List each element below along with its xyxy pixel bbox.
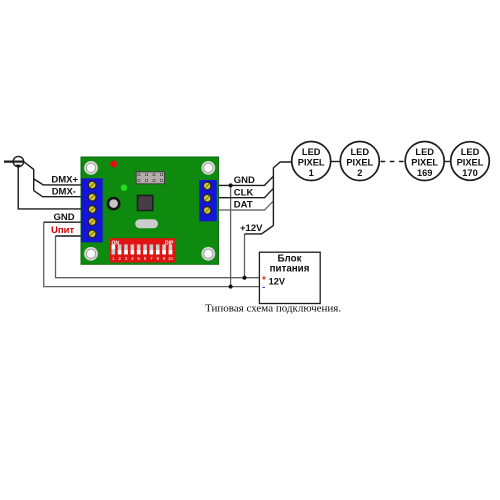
svg-text:DMX+: DMX+ [51,175,78,186]
svg-text:DMX-: DMX- [52,186,76,197]
svg-text:PIXEL: PIXEL [298,158,325,168]
svg-text:PIXEL: PIXEL [457,158,484,168]
svg-text:12V: 12V [269,277,286,287]
svg-text:10: 10 [168,256,174,261]
svg-text:Uпит: Uпит [51,225,74,236]
svg-text:169: 169 [417,168,433,178]
svg-text:5: 5 [137,256,140,261]
svg-text:CLK: CLK [234,187,254,198]
svg-text:1: 1 [112,256,115,261]
svg-text:1: 1 [309,168,314,178]
svg-text:LED: LED [350,147,369,157]
svg-text:GND: GND [54,212,75,223]
svg-text:4: 4 [131,256,134,261]
svg-text:2: 2 [118,256,121,261]
svg-text:6: 6 [144,256,147,261]
svg-text:питания: питания [270,264,310,275]
svg-text:+12V: +12V [240,223,263,234]
svg-text:-: - [262,282,265,292]
svg-text:LED: LED [302,147,321,157]
svg-text:LED: LED [461,147,480,157]
svg-text:8: 8 [156,256,159,261]
svg-text:2: 2 [357,168,362,178]
svg-text:LED: LED [415,147,434,157]
svg-text:PIXEL: PIXEL [411,158,438,168]
svg-text:PIXEL: PIXEL [346,158,373,168]
svg-text:9: 9 [163,256,166,261]
svg-text:GND: GND [234,175,255,186]
svg-text:DAT: DAT [234,200,253,211]
svg-text:Типовая схема подключения.: Типовая схема подключения. [205,303,341,315]
svg-text:170: 170 [462,168,478,178]
svg-text:7: 7 [150,256,153,261]
svg-text:3: 3 [125,256,128,261]
